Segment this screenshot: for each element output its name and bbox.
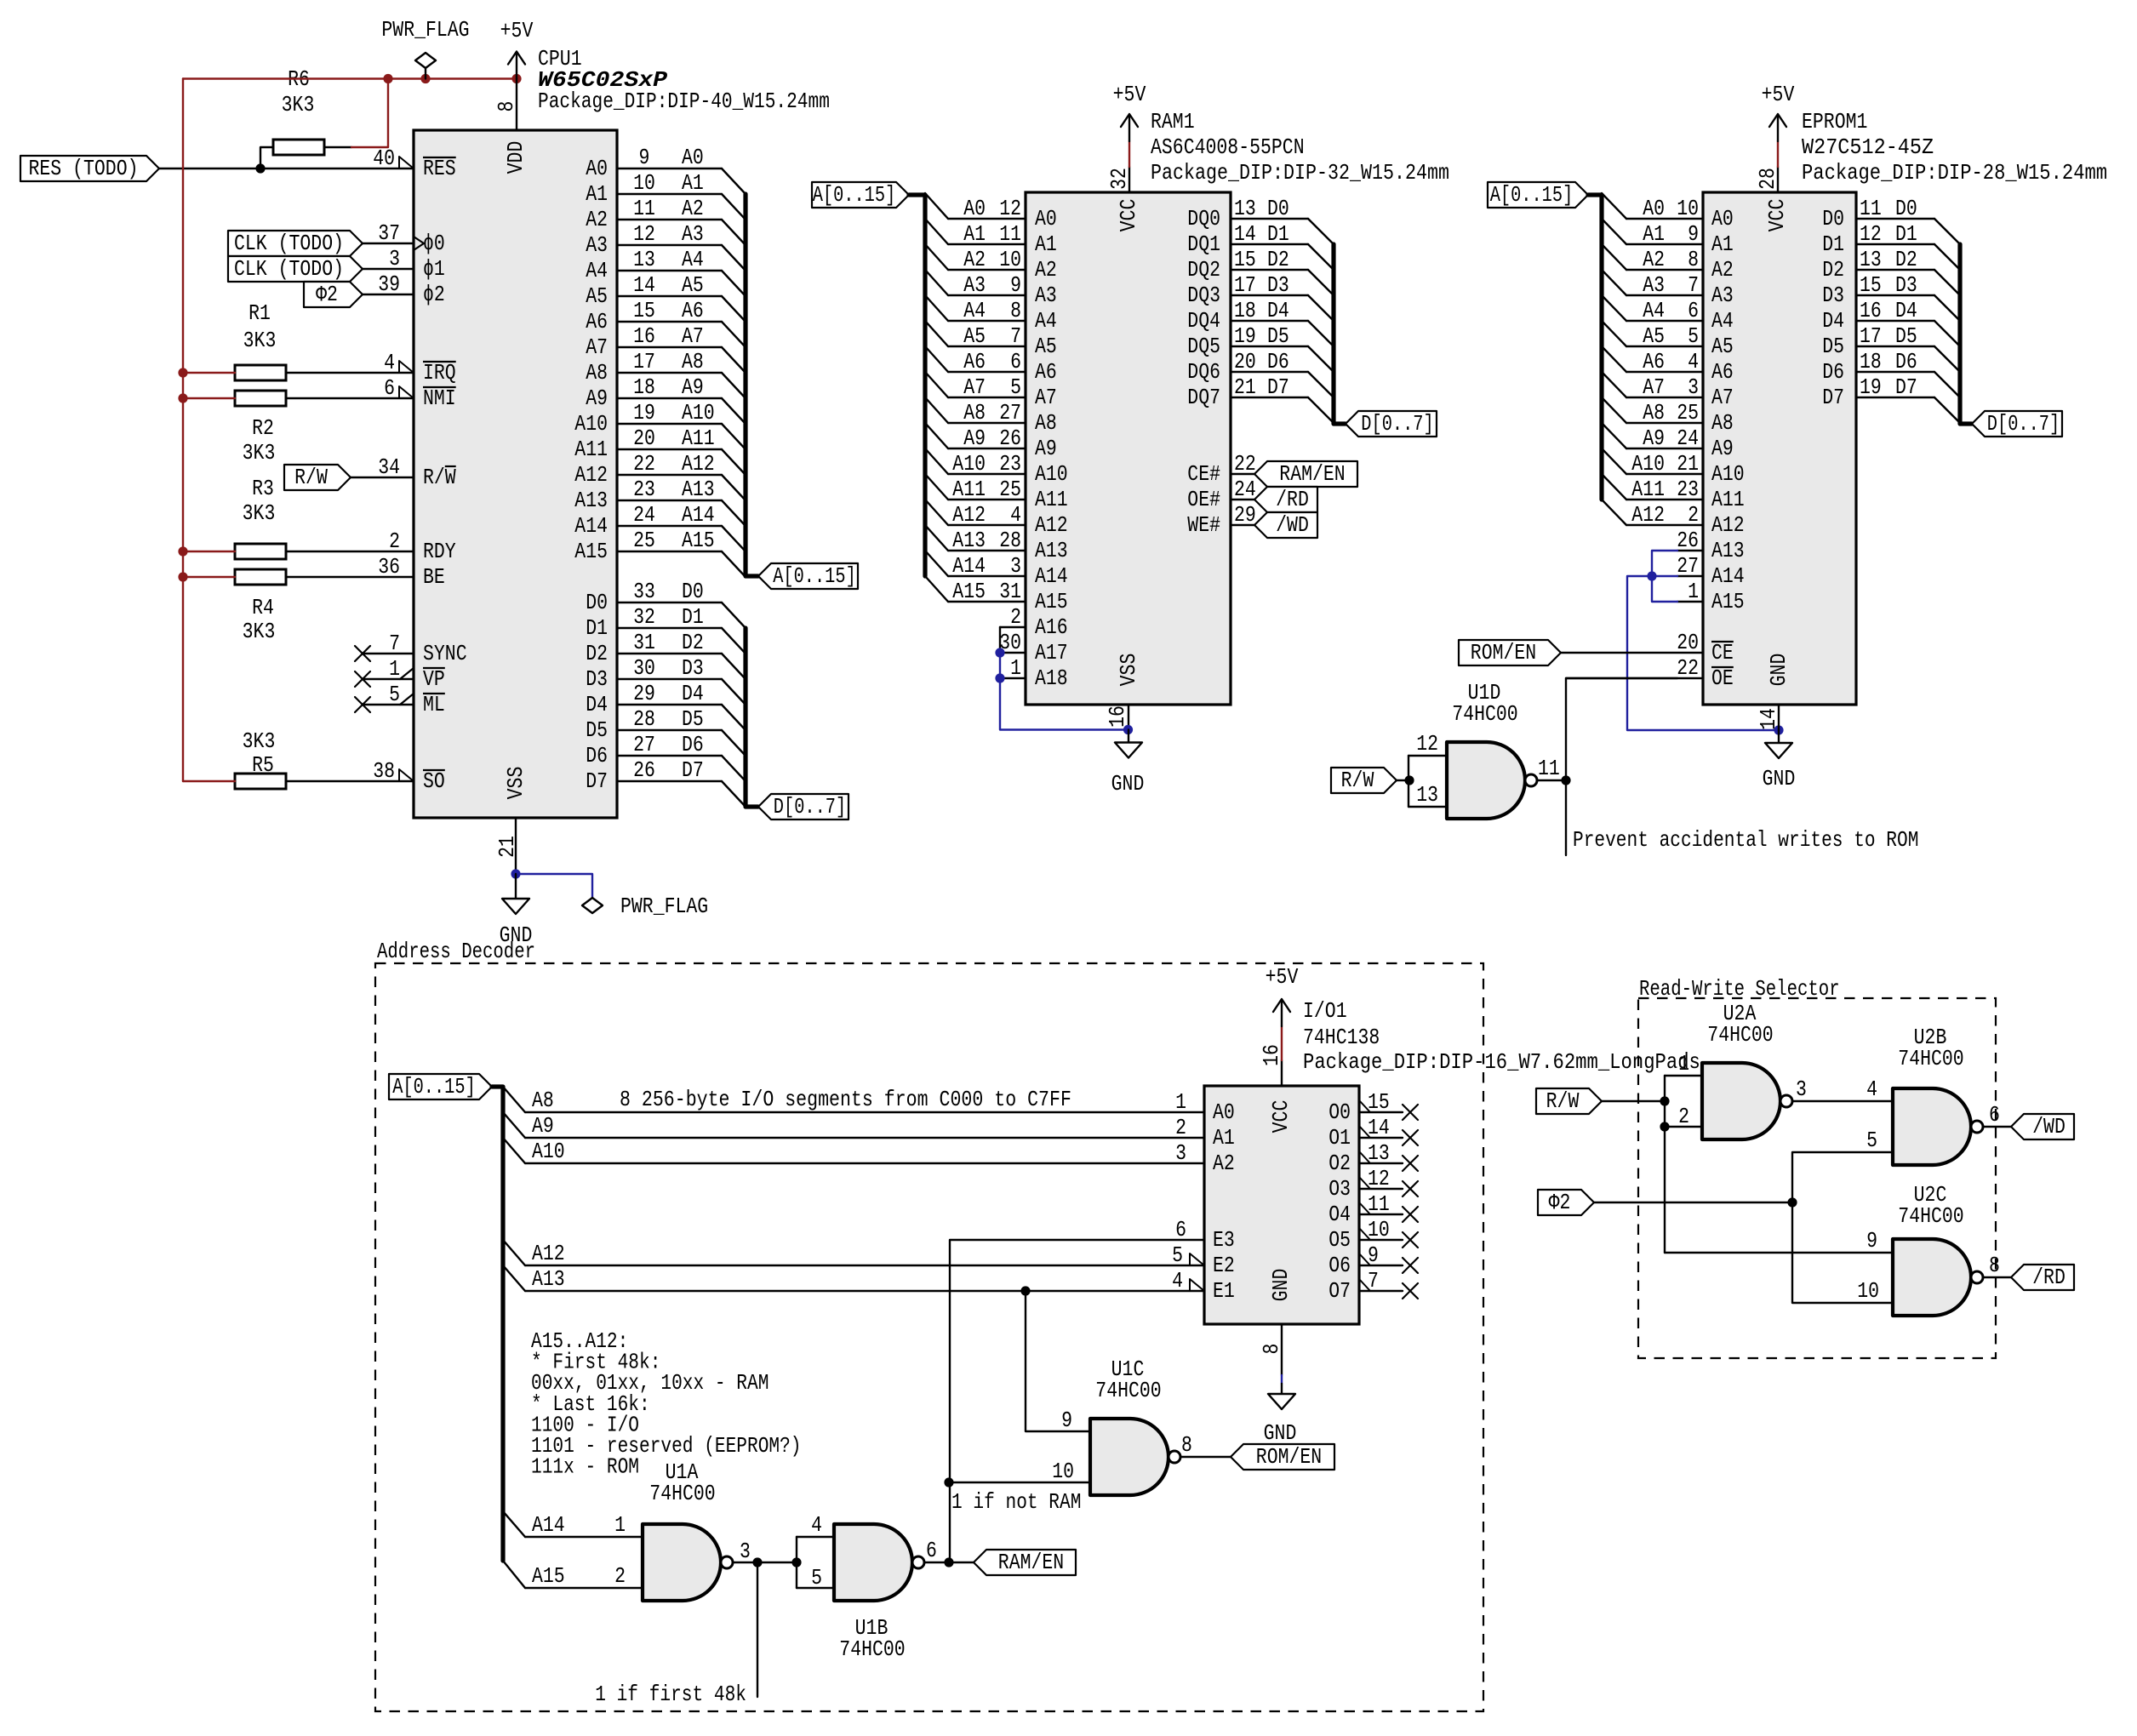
svg-text:D3: D3: [1822, 283, 1844, 308]
U1B pin 5 wire: [797, 1565, 834, 1590]
junction +5V rail / R6: [383, 74, 392, 83]
svg-text:A11: A11: [952, 477, 986, 502]
svg-text:VCC: VCC: [1268, 1100, 1294, 1134]
U1D pin 11 output wire: [1537, 756, 1566, 781]
+5V text (CPU): [500, 18, 534, 43]
global label /RD (RAM): [1254, 487, 1317, 512]
svg-text:A17: A17: [1035, 640, 1068, 665]
gate U2A 74HC00: [1702, 1063, 1792, 1139]
svg-text:GND: GND: [1268, 1269, 1294, 1302]
svg-text:D6: D6: [1895, 349, 1917, 374]
svg-text:3: 3: [1175, 1140, 1186, 1166]
junction rail/R3: [178, 546, 187, 556]
EPROM1 pin 13 D2: [1822, 247, 1960, 295]
EPROM1 pin 14 GND: [1756, 654, 1791, 730]
sheet box Address Decoder: [375, 963, 1483, 1711]
svg-text:BE: BE: [423, 564, 445, 590]
CPU1 pin A8: [586, 349, 746, 398]
svg-text:20: 20: [1234, 349, 1256, 374]
U2A pin 2 wire: [1665, 1104, 1702, 1129]
svg-text:R1: R1: [249, 300, 271, 326]
svg-text:ROM/EN: ROM/EN: [1256, 1444, 1322, 1470]
svg-text:RES (TODO): RES (TODO): [29, 156, 139, 181]
CPU1 pin A7: [586, 323, 746, 373]
svg-text:9: 9: [1866, 1228, 1877, 1253]
svg-text:28: 28: [633, 706, 655, 732]
junction A14 (blue): [1647, 571, 1656, 580]
bus entry A15: [503, 1561, 525, 1588]
wire RES net from label to CPU pin 40: [159, 168, 414, 169]
svg-text:D4: D4: [1895, 298, 1917, 323]
svg-text:A15: A15: [1035, 589, 1068, 614]
svg-text:D6: D6: [1822, 359, 1844, 385]
U1C labels: [1095, 1356, 1161, 1403]
svg-text:VSS: VSS: [1116, 654, 1141, 687]
power GND (CPU): [502, 874, 529, 914]
svg-text:A13: A13: [952, 528, 986, 553]
RAM1 pin 10 A2: [925, 244, 1057, 283]
svg-text:A7: A7: [1711, 385, 1734, 410]
EPROM1 reference and value labels: [1802, 109, 2107, 186]
junction R/W vertical top: [1660, 1096, 1669, 1105]
svg-text:28: 28: [1755, 168, 1780, 190]
U2A pin 3 output: [1792, 1076, 1893, 1102]
wire 1 if first 48k: [757, 1562, 758, 1697]
I/O1 pin 15 O0: [1328, 1089, 1418, 1125]
wire red stub R1: [183, 372, 235, 374]
svg-text:D1: D1: [1267, 221, 1289, 247]
svg-text:19: 19: [1234, 323, 1256, 349]
svg-text:O2: O2: [1328, 1151, 1351, 1176]
svg-text:I/O1: I/O1: [1303, 998, 1347, 1024]
svg-text:23: 23: [1677, 477, 1699, 502]
U EPROM1 W27C512-45Z body: [1703, 192, 1856, 705]
svg-text:O7: O7: [1328, 1278, 1351, 1304]
svg-text:/RD: /RD: [2032, 1265, 2066, 1290]
svg-text:A0: A0: [1643, 196, 1665, 221]
svg-text:19: 19: [1860, 374, 1882, 400]
svg-text:10: 10: [1677, 196, 1699, 221]
svg-text:1: 1: [1688, 579, 1699, 604]
CPU1 pin A4: [586, 247, 746, 296]
CPU1 pin 4 IRQ: [384, 350, 456, 385]
U1C pin 10 wire: [949, 1459, 1090, 1484]
svg-text:D2: D2: [1822, 257, 1844, 283]
svg-text:A5: A5: [1643, 323, 1665, 349]
EPROM1 pin 20 CE: [1561, 630, 1734, 665]
svg-text:74HC00: 74HC00: [1095, 1378, 1161, 1403]
svg-text:A5: A5: [586, 283, 608, 309]
CPU1 pin D5: [586, 706, 746, 756]
hier label A[0..15] (EPROM): [1488, 182, 1588, 208]
power GND (EPROM): [1765, 730, 1792, 758]
svg-text:A8: A8: [1643, 400, 1665, 425]
bus entry A13: [503, 1265, 525, 1291]
svg-text:1 if not RAM: 1 if not RAM: [951, 1489, 1081, 1515]
junction A17 (blue): [995, 648, 1004, 657]
svg-text:RES: RES: [423, 156, 456, 181]
svg-text:D0: D0: [682, 579, 704, 604]
svg-text:10: 10: [1368, 1217, 1390, 1242]
svg-text:10: 10: [1857, 1278, 1879, 1304]
wire red riser from R6: [351, 79, 388, 148]
svg-text:18: 18: [1860, 349, 1882, 374]
svg-text:R/W: R/W: [294, 465, 328, 490]
wire R2 to NMI pin: [286, 397, 414, 399]
CPU1 pin D3: [586, 655, 746, 705]
gate U2C 74HC00: [1893, 1239, 1983, 1316]
svg-text:4: 4: [1172, 1268, 1183, 1293]
EPROM1 pin 22 OE: [1566, 655, 1734, 691]
svg-text:RAM/EN: RAM/EN: [1279, 461, 1345, 487]
svg-text:A3: A3: [1711, 283, 1734, 308]
hier label D[0..7] (EPROM): [1972, 411, 2062, 437]
svg-text:GND: GND: [1766, 654, 1791, 687]
R1 labels: [243, 300, 277, 353]
svg-text:D5: D5: [1822, 334, 1844, 359]
power +5V (I/O1): [1273, 999, 1290, 1026]
svg-text:2: 2: [1688, 502, 1699, 528]
gate U1D 74HC00: [1447, 742, 1537, 819]
I/O1 pin 3 A2: [1175, 1140, 1235, 1176]
svg-text:4: 4: [1866, 1076, 1877, 1102]
svg-text:A2: A2: [963, 247, 986, 272]
U2B pin 4 number: [1866, 1076, 1877, 1102]
svg-text:DQ6: DQ6: [1187, 359, 1220, 385]
svg-text:40: 40: [373, 146, 395, 171]
junction U1B inputs: [791, 1557, 801, 1567]
svg-text:5: 5: [811, 1565, 822, 1590]
CPU1 pin D7: [586, 757, 746, 807]
svg-text:3K3: 3K3: [243, 328, 277, 353]
I/O1 pin 4 E1: [1172, 1268, 1235, 1304]
svg-text:ϕ1: ϕ1: [423, 256, 445, 282]
wire A12: [525, 1241, 1204, 1266]
svg-text:D3: D3: [1895, 272, 1917, 298]
CPU1 pin D0: [586, 579, 746, 628]
svg-text:Read-Write Selector: Read-Write Selector: [1639, 976, 1840, 1002]
U1D input connector: [1408, 756, 1409, 807]
I/O1 pin 12 O3: [1328, 1166, 1418, 1202]
svg-text:30: 30: [633, 655, 655, 681]
title Read-Write Selector: [1639, 976, 1840, 1002]
svg-text:A1: A1: [1643, 221, 1665, 247]
svg-text:A8: A8: [1035, 410, 1057, 436]
gate U1B 74HC00: [834, 1524, 924, 1601]
wire A16 to A17 (black): [999, 627, 1001, 653]
CPU1 pin 5 ML: [389, 682, 445, 717]
svg-text:111x - ROM: 111x - ROM: [531, 1454, 639, 1480]
wire R4 to BE pin: [286, 576, 414, 578]
wire blue A-tie to GND: [1627, 576, 1779, 730]
RAM1 pin 20 DQ6: [1187, 349, 1334, 397]
svg-text:A[0..15]: A[0..15]: [392, 1074, 476, 1099]
svg-text:2: 2: [389, 528, 400, 554]
wire stub SYNC: [363, 653, 414, 654]
svg-text:RAM1: RAM1: [1151, 109, 1195, 134]
wire PHI2 to U2C pin10: [1792, 1202, 1893, 1303]
RAM1 pin 7 A5: [925, 321, 1057, 359]
U1C pin 9 number: [1061, 1408, 1072, 1433]
wire blue A17-A18 to GND: [1000, 653, 1128, 730]
svg-text:74HC00: 74HC00: [1898, 1203, 1963, 1229]
svg-text:32: 32: [633, 604, 655, 630]
U1B pin 6 output: [924, 1538, 974, 1563]
svg-text:9: 9: [1688, 221, 1699, 247]
svg-text:D3: D3: [586, 666, 608, 692]
svg-text:4: 4: [384, 350, 395, 375]
svg-text:D6: D6: [1267, 349, 1289, 374]
junction RAM/EN riser: [944, 1557, 953, 1567]
svg-text:A4: A4: [963, 298, 986, 323]
svg-text:D0: D0: [586, 590, 608, 615]
wire U1C pin9 riser: [1026, 1291, 1090, 1431]
resistor R1: [235, 365, 286, 380]
svg-text:E2: E2: [1213, 1253, 1235, 1278]
svg-text:GND: GND: [1111, 771, 1145, 797]
R6 labels: [282, 66, 315, 117]
svg-text:5: 5: [389, 682, 400, 707]
GND text (CPU): [500, 922, 533, 948]
RAM1 pin 25 A11: [925, 474, 1068, 512]
svg-text:1: 1: [1175, 1089, 1186, 1115]
svg-text:RAM/EN: RAM/EN: [998, 1550, 1064, 1575]
global label /WD (selector): [2011, 1114, 2074, 1139]
svg-text:A1: A1: [682, 170, 704, 196]
GND text (RAM): [1111, 771, 1145, 797]
svg-text:15: 15: [1368, 1089, 1390, 1115]
svg-text:D2: D2: [586, 641, 608, 666]
U1A pin 3 output: [733, 1539, 797, 1564]
svg-text:9: 9: [1061, 1408, 1072, 1433]
EPROM1 pin 12 D1: [1822, 221, 1960, 270]
svg-text:GND: GND: [1763, 766, 1796, 791]
EPROM1 pin 11 D0: [1822, 196, 1960, 244]
svg-text:11: 11: [999, 221, 1021, 247]
resistor R6: [273, 140, 324, 155]
svg-text:D1: D1: [586, 615, 608, 641]
svg-text:E1: E1: [1213, 1278, 1235, 1304]
I/O1 pin 5 E2: [1172, 1242, 1235, 1278]
RAM1 pin 18 DQ4: [1187, 298, 1334, 346]
svg-text:29: 29: [633, 681, 655, 706]
RAM1 pin 2 A16: [1000, 604, 1068, 640]
power GND (I/O1): [1268, 1384, 1295, 1409]
svg-text:74HC00: 74HC00: [839, 1636, 905, 1662]
U I/O1 74HC138 body: [1204, 1086, 1359, 1324]
svg-text:12: 12: [1860, 221, 1882, 247]
svg-text:D0: D0: [1822, 206, 1844, 231]
CPU1 pin A5: [586, 272, 746, 322]
svg-text:21: 21: [1677, 451, 1699, 477]
I/O1 pin 6 E3: [1175, 1217, 1235, 1253]
svg-text:A6: A6: [963, 349, 986, 374]
EPROM1 pin 7 A3: [1602, 270, 1734, 308]
RAM1 pin 6 A6: [925, 346, 1057, 385]
junction rail/R2: [178, 393, 187, 403]
svg-text:A12: A12: [1035, 512, 1068, 538]
svg-text:3K3: 3K3: [243, 440, 276, 465]
svg-text:A11: A11: [1631, 477, 1665, 502]
svg-text:A15: A15: [574, 539, 608, 564]
CPU1 pin 1 VP: [389, 656, 445, 692]
svg-text:Φ2: Φ2: [316, 282, 338, 307]
svg-text:A4: A4: [1035, 308, 1057, 334]
svg-text:D[0..7]: D[0..7]: [774, 794, 846, 819]
svg-text:DQ2: DQ2: [1187, 257, 1220, 283]
svg-text:8: 8: [1688, 247, 1699, 272]
svg-text:O5: O5: [1328, 1227, 1351, 1253]
GND text (I/O1): [1264, 1420, 1297, 1446]
I/O1 pin 16 VCC: [1259, 1044, 1294, 1133]
I/O1 pin 9 O6: [1328, 1242, 1418, 1278]
wire PHI2: [1594, 1202, 1792, 1203]
U2B labels: [1898, 1025, 1963, 1071]
svg-text:13: 13: [633, 247, 655, 272]
svg-text:W27C512-45Z: W27C512-45Z: [1802, 134, 1934, 160]
svg-text:IRQ: IRQ: [423, 360, 456, 385]
junction +5V rail / VDD: [511, 74, 521, 83]
junction RES/R6: [255, 163, 265, 173]
hier label A[0..15] (RAM): [812, 182, 909, 208]
svg-text:D7: D7: [1895, 374, 1917, 400]
svg-text:A7: A7: [1035, 385, 1057, 410]
EPROM1 pin 24 A9: [1602, 423, 1734, 461]
wire +5V rail (red): [183, 77, 517, 79]
svg-text:Package_DIP:DIP-40_W15.24mm: Package_DIP:DIP-40_W15.24mm: [538, 89, 830, 114]
svg-text:PWR_FLAG: PWR_FLAG: [381, 17, 469, 43]
bus entry A9: [503, 1112, 525, 1138]
svg-text:A0: A0: [1711, 206, 1734, 231]
svg-text:1 if first 48k: 1 if first 48k: [595, 1682, 746, 1707]
svg-text:A13: A13: [682, 477, 715, 502]
svg-text:O1: O1: [1328, 1125, 1351, 1151]
CPU1 pin 36 BE: [378, 554, 445, 590]
svg-text:ROM/EN: ROM/EN: [1471, 640, 1536, 665]
svg-text:A4: A4: [1711, 308, 1734, 334]
CPU1 pin A3: [586, 221, 746, 271]
wire A8: [525, 1088, 1204, 1113]
svg-text:A[0..15]: A[0..15]: [1490, 182, 1574, 208]
CPU1 pin 21 VSS: [494, 767, 529, 874]
wire A13: [525, 1266, 1204, 1292]
svg-text:21: 21: [494, 836, 520, 858]
svg-text:Package_DIP:DIP-32_W15.24mm: Package_DIP:DIP-32_W15.24mm: [1151, 160, 1449, 186]
svg-text:/WD: /WD: [1276, 512, 1309, 538]
bus A[0..15] (RAM): [909, 195, 925, 576]
no-connect X SYNC: [355, 646, 370, 661]
junction rail/R1: [178, 368, 187, 377]
U2A labels: [1707, 1001, 1773, 1048]
U2B pin 5 wire: [1792, 1128, 1893, 1202]
RAM1 pin 11 A1: [925, 219, 1057, 257]
svg-text:ML: ML: [423, 692, 445, 717]
svg-text:D7: D7: [1822, 385, 1844, 410]
wire R5 to SO pin: [286, 780, 414, 782]
svg-text:3K3: 3K3: [282, 92, 315, 117]
hier label A[0..15] (decoder): [389, 1074, 492, 1099]
svg-text:13: 13: [1416, 782, 1438, 808]
svg-text:D3: D3: [1267, 272, 1289, 298]
svg-text:6: 6: [384, 375, 395, 401]
I/O1 pin 7 O7: [1328, 1268, 1418, 1304]
svg-text:D2: D2: [682, 630, 704, 655]
svg-text:5: 5: [1172, 1242, 1183, 1268]
svg-text:A12: A12: [532, 1241, 565, 1266]
svg-text:A10: A10: [682, 400, 715, 425]
svg-text:GND: GND: [1264, 1420, 1297, 1446]
U1A pin 1 wire: [614, 1512, 626, 1538]
svg-text:A10: A10: [574, 411, 608, 437]
junction R/W inputs: [1404, 775, 1414, 785]
title Address Decoder: [377, 939, 535, 964]
CPU1 pin 38 SO: [373, 758, 445, 794]
svg-text:A6: A6: [1643, 349, 1665, 374]
U CPU1 W65C02SxP body: [414, 130, 617, 818]
svg-text:1: 1: [389, 656, 400, 682]
svg-text:R/W: R/W: [423, 465, 456, 490]
svg-text:16: 16: [1860, 298, 1882, 323]
RAM1 pin 13 DQ0: [1187, 196, 1334, 244]
global label PHI2 (selector): [1538, 1190, 1594, 1215]
svg-text:/WD: /WD: [2032, 1114, 2066, 1139]
RAM1 pin 17 DQ3: [1187, 272, 1334, 321]
svg-text:A18: A18: [1035, 665, 1068, 691]
svg-text:CE#: CE#: [1187, 461, 1220, 487]
svg-text:R4: R4: [252, 595, 274, 620]
RAM1 pin 12 A0: [925, 193, 1057, 231]
svg-text:4: 4: [1688, 349, 1699, 374]
comment 8 256-byte I/O segments: [620, 1087, 1071, 1112]
svg-text:D5: D5: [1895, 323, 1917, 349]
comment memory map text: [531, 1328, 802, 1480]
svg-text:A12: A12: [952, 502, 986, 528]
svg-text:+5V: +5V: [500, 18, 534, 43]
RAM1 pin 30 A17: [999, 630, 1068, 665]
svg-text:A15: A15: [952, 579, 986, 604]
wire red stub R5: [183, 780, 235, 782]
CPU1 pin A0: [586, 145, 746, 194]
EPROM1 pin 18 D6: [1822, 349, 1960, 397]
svg-text:D3: D3: [682, 655, 704, 681]
wire stub VP: [363, 678, 414, 680]
svg-text:A2: A2: [1035, 257, 1057, 283]
svg-text:10: 10: [999, 247, 1021, 272]
svg-text:Package_DIP:DIP-16_W7.62mm_Lon: Package_DIP:DIP-16_W7.62mm_LongPads: [1303, 1049, 1700, 1075]
RAM1 pin 5 A7: [925, 372, 1057, 410]
CPU1 pin D2: [586, 630, 746, 679]
svg-text:1: 1: [1010, 655, 1021, 681]
svg-text:A9: A9: [963, 425, 986, 451]
svg-text:ϕ0: ϕ0: [423, 231, 445, 256]
RAM1 pin 9 A3: [925, 270, 1057, 308]
U1C pin 8 output: [1180, 1432, 1231, 1458]
R6 right lead: [324, 146, 351, 148]
svg-text:A10: A10: [532, 1139, 565, 1164]
svg-text:16: 16: [633, 323, 655, 349]
svg-text:6: 6: [926, 1538, 937, 1563]
RAM1 pin 3 A14: [925, 551, 1068, 589]
EPROM1 pin 8 A2: [1602, 244, 1734, 283]
wire A9: [525, 1113, 1204, 1139]
svg-text:A6: A6: [586, 309, 608, 334]
svg-text:3: 3: [1010, 553, 1021, 579]
EPROM1 pin 5 A5: [1602, 321, 1734, 359]
svg-text:D1: D1: [1822, 231, 1844, 257]
RAM1 pin 32 VCC: [1106, 167, 1141, 231]
EPROM1 pin 23 A11: [1602, 474, 1745, 512]
svg-text:21: 21: [1234, 374, 1256, 400]
